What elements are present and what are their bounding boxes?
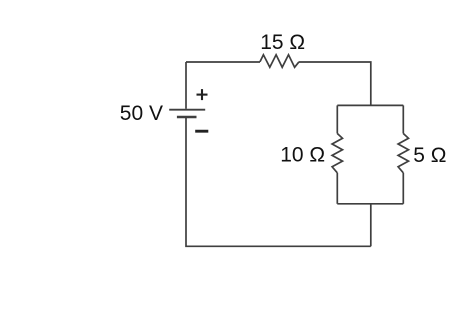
svg-text:10 Ω: 10 Ω [280,143,325,166]
svg-text:50 V: 50 V [120,102,163,125]
svg-text:15 Ω: 15 Ω [260,31,305,54]
svg-text:5 Ω: 5 Ω [413,144,446,167]
